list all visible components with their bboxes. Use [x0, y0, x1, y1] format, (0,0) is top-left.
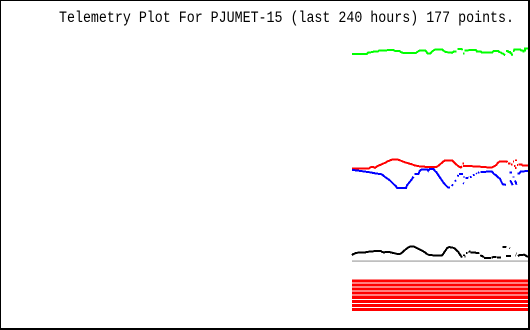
channel 5 band (red stripes) — [352, 279, 528, 311]
channel 2 trace (red) — [352, 160, 529, 169]
channel 1 trace (green) — [352, 48, 529, 55]
channel 3 trace (blue) — [352, 169, 529, 188]
svg-text:Telemetry Plot For PJUMET-15 (: Telemetry Plot For PJUMET-15 (last 240 h… — [59, 9, 514, 27]
channel 4 zero baseline (gray) — [352, 260, 529, 262]
channel 4 trace (black) — [352, 247, 529, 258]
